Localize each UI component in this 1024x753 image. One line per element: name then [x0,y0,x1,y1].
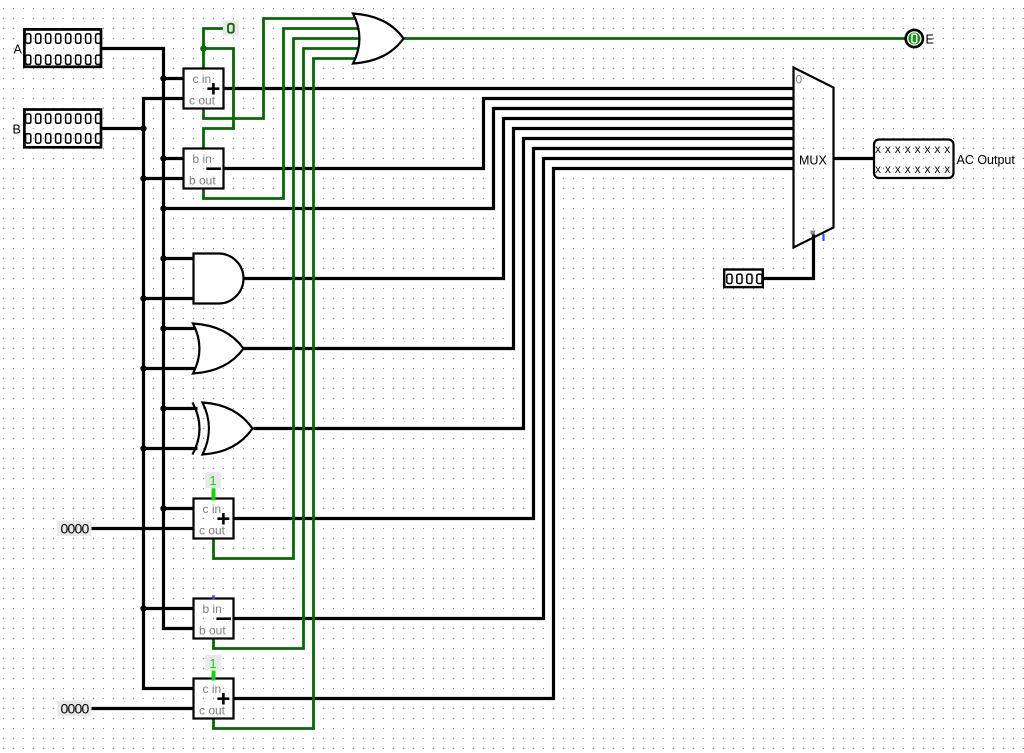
select pin digits [727,274,762,283]
adder U8 box [194,679,234,719]
ADDER_U1 [184,69,224,109]
adder U6 plus sign [217,513,229,525]
input pin B box [24,110,101,148]
OR gate body [193,324,244,374]
svg-text:E: E [926,33,934,47]
wire A to OR gate input 1 [164,327,199,330]
node B-branch [140,125,146,131]
svg-text:1: 1 [209,473,216,488]
CONST_0000_B [57,701,92,717]
constant 0 value glyph [228,24,234,33]
wire OR output to MUX input 4 [244,129,794,349]
wire B to subtractor U7 input a [144,607,194,610]
wire AND output to MUX input 3 [244,119,794,279]
XOR gate body [203,403,253,455]
node B-sub2 [140,605,146,611]
output pin E value disc [908,33,920,45]
wire constant 0000 to adder U6 input b [91,527,194,530]
svg-text:b out: b out [199,624,226,638]
svg-text:b in: b in [193,152,212,166]
svg-text:b out: b out [189,174,216,188]
svg-text:b in: b in [203,602,222,616]
ADDER_U6 [194,499,234,539]
wire adder U8 output to MUX input 8 [234,169,794,699]
SUB_U2 [184,149,224,189]
wire XOR output to MUX input 5 [254,139,794,429]
wire constant 0 to adder U1 carry-in [204,29,225,69]
node A-adder1 [160,75,166,81]
wire A direct to MUX input 2 [164,109,794,209]
wire adder U6 output to MUX input 6 [234,149,794,519]
subtractor U7 box [194,599,234,639]
svg-text:xxxxxxxx: xxxxxxxx [875,162,954,176]
svg-text:B: B [13,123,21,137]
svg-text:xxxxxxxx: xxxxxxxx [875,142,954,156]
wire subtractor U7 output to MUX input 7 [234,159,794,619]
adder U6 box [194,499,234,539]
wire A to adder U1 input a [164,77,184,80]
node B-and [140,295,146,301]
wire B output bus [102,127,144,130]
constant 0000 background (adder U6 operand) [57,521,92,537]
bright green stub to adder U6 carry-in [212,488,216,500]
svg-text:0000: 0000 [61,701,90,717]
wire adder U6 carry-out to OR5 input 3 [214,39,361,559]
MUX [794,68,834,248]
node A-or [160,325,166,331]
wire A to AND gate input 1 [164,257,194,260]
5-input OR gate body [353,14,404,64]
PIN_A [14,29,102,66]
svg-text:c out: c out [199,524,226,538]
pin B digits row 2 [26,134,101,143]
CONST_1_B [205,655,221,671]
output pin E value 0 glyph [912,34,917,43]
pin B digits row 1 [26,114,101,123]
adder U8 plus sign [217,693,229,705]
MUX trapezoid body [794,68,834,248]
wire MUX output to AC Output pin [834,157,875,160]
XOR_GATE [193,403,253,455]
wire B bus vertical [144,99,194,689]
output pin AC Output rounded box [874,140,954,179]
svg-text:1: 1 [209,656,216,671]
constant 0000 background (adder U8 operand) [57,701,92,717]
SELECT_PIN [724,270,763,288]
node A-and [160,255,166,261]
output pin E outer circle [906,30,923,47]
adder U1 plus sign [207,83,219,95]
svg-text:c out: c out [189,94,216,108]
wire subtractor U2 borrow-out to OR5 input 2 [204,29,360,199]
constant 1 background (adder U8) [205,655,221,671]
wire adder U1 output to MUX input 0 [224,87,794,90]
wire B to subtractor U2 input b [144,177,184,180]
bright green stub to adder U8 carry-in [212,671,216,681]
pin A digits row 2 [26,55,101,64]
wire subtractor U2 output to MUX input 1 [224,99,794,169]
WIRES_BLACK [91,49,874,709]
pin A digits row 1 [26,34,101,43]
WIRES_GREEN [204,19,906,729]
JUNCTIONS [140,75,166,611]
adder U1 box [184,69,224,109]
PIN_B [13,110,102,148]
AND_GATE [194,254,244,304]
wire A to adder U6 input a [164,507,194,510]
wire B to OR gate input 2 [144,367,199,370]
CONST_0 [223,20,239,35]
wire A to subtractor U2 input a [164,157,184,160]
wire B to AND gate input 2 [144,297,194,300]
svg-text:c out: c out [199,704,226,718]
SUB_U7 [194,599,234,639]
wire select pin 0000 to MUX select [764,234,814,279]
input pin A box [24,29,101,66]
MUX select port marker [811,231,816,235]
node carry0 junction [200,45,207,52]
OR_GATE [193,324,244,374]
node B-sub1 [140,175,146,181]
wire B to XOR gate input 2 [144,447,198,450]
node A-xor [160,405,166,411]
wire adder U8 carry-out to OR5 input 5 [214,59,358,729]
blue floating stub subtractor U7 borrow-in [212,595,215,599]
svg-text:c in: c in [203,682,222,696]
subtractor U7 minus sign [216,617,231,620]
svg-text:A: A [14,43,23,57]
wire A to XOR gate input 1 [164,407,198,410]
node B-xor [140,445,146,451]
svg-text:AC Output: AC Output [957,153,1016,167]
constant 0 background [223,20,239,35]
AND gate body [194,254,244,304]
wire constant 0000 to adder U8 input b [91,707,194,710]
constant 1 background (adder U6) [205,472,221,488]
CONST_1_A [205,472,221,488]
subtractor U2 box [184,149,224,189]
wire subtractor U7 borrow-out to OR5 input 4 [214,49,360,649]
wire A output bus [102,49,194,629]
ADDER_U8 [194,679,234,719]
blue floating stub MUX enable [822,234,824,241]
XOR gate extra back arc [193,403,200,455]
node B-or [140,365,146,371]
svg-text:MUX: MUX [799,154,827,168]
node A-adder2 [160,505,166,511]
svg-text:c in: c in [203,502,222,516]
node A-mux [160,205,166,211]
AC_OUTPUT [874,140,1015,179]
svg-text:c in: c in [193,72,212,86]
select input pin 0000 box [724,270,763,288]
node A-sub1 [160,155,166,161]
wire OR5 output to pin E [404,37,906,40]
subtractor U2 minus sign [206,167,221,170]
svg-text:0: 0 [796,73,803,87]
PIN_E [906,30,934,47]
CONST_0000_A [57,521,92,537]
OR5_GATE [353,14,404,64]
svg-text:0000: 0000 [61,521,90,537]
wire carry-0 branch to subtractor U2 borrow-in [204,49,234,149]
wire adder U1 carry-out to OR5 input 1 [204,19,358,119]
